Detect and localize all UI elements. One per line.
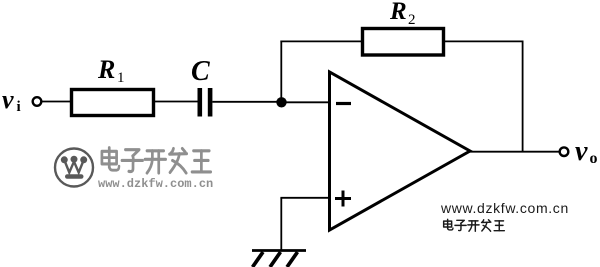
watermark logo circle-W (55, 149, 93, 187)
resistor R2 (363, 29, 444, 56)
ground (252, 249, 306, 252)
wire feedback top right (444, 40, 524, 42)
svg-text:R: R (97, 55, 115, 84)
svg-text:vi: vi (2, 85, 21, 115)
svg-text:R: R (389, 0, 407, 25)
node junction dot (276, 97, 286, 107)
svg-text:www.dzkfw.com.cn: www.dzkfw.com.cn (440, 200, 569, 216)
svg-text:1: 1 (117, 70, 125, 86)
svg-text:2: 2 (408, 12, 416, 28)
input terminal (33, 97, 42, 106)
svg-text:C: C (191, 56, 210, 87)
resistor R1 (72, 90, 154, 116)
wire feedback down to output (522, 41, 524, 152)
wire node to inverting input (282, 101, 330, 103)
wire node up to feedback (280, 41, 282, 103)
wire feedback top left (280, 40, 361, 42)
capacitor C (198, 88, 203, 117)
watermark text 电子开发王 (gray) (102, 148, 211, 173)
watermark text 电子开发王 (black) (444, 219, 505, 231)
op-amp minus sign (336, 102, 351, 105)
wire input to R1 (42, 101, 71, 103)
wire R1 to C (155, 101, 198, 103)
svg-text:vo: vo (575, 136, 597, 167)
wire output (469, 151, 560, 153)
op-amp U1 triangle (330, 72, 471, 230)
output terminal (560, 147, 569, 156)
op-amp plus sign (335, 197, 351, 200)
wire noninverting input (280, 197, 329, 199)
wire C to node (212, 101, 281, 103)
svg-text:www.dzkfw.com.cn: www.dzkfw.com.cn (98, 177, 213, 191)
wire down to ground (280, 198, 282, 251)
